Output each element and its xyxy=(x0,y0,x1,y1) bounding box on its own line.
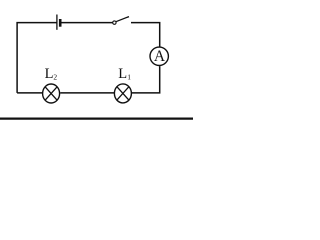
svg-text:L: L xyxy=(45,66,54,82)
wire: left side, top-left corner to battery xyxy=(17,23,57,93)
wire: battery to switch xyxy=(61,22,112,24)
switch S pivot circle xyxy=(113,21,116,24)
wire: ammeter to bottom-right corner to lamp L1 xyxy=(132,66,160,93)
svg-text:1: 1 xyxy=(127,73,131,82)
svg-text:L: L xyxy=(118,66,127,82)
lamp L2 cross xyxy=(45,87,57,100)
lamp L2 circle xyxy=(43,84,60,103)
switch S lever (open) xyxy=(116,17,129,22)
wire: lamp L2 to bottom-left corner xyxy=(17,92,42,94)
svg-text:A: A xyxy=(154,48,166,65)
wire: between lamps L1 and L2 xyxy=(60,92,114,94)
bottom rule line xyxy=(0,117,193,119)
ammeter A circle xyxy=(150,47,168,65)
battery B1 long plate (+) xyxy=(56,15,58,30)
battery B1 short thick plate (-) xyxy=(59,19,62,27)
wire: switch to top-right corner, down to ammeter xyxy=(131,23,160,47)
lamp L1 circle xyxy=(114,84,131,103)
svg-text:2: 2 xyxy=(53,73,57,82)
lamp L1 cross xyxy=(117,87,129,100)
